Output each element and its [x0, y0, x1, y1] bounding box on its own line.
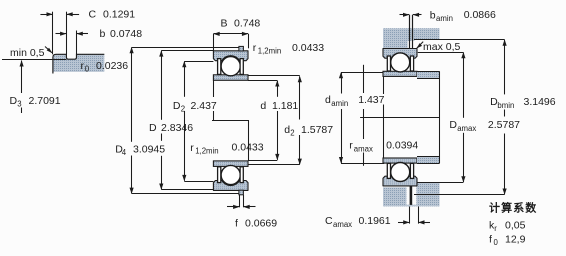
dimension B line with arrows — [213, 33, 248, 35]
svg-text:3.0945: 3.0945 — [133, 144, 165, 156]
svg-text:1.181: 1.181 — [272, 100, 298, 112]
svg-text:r: r — [253, 42, 257, 54]
housing upper block — [383, 28, 440, 48]
left detail: groove block outline with groove and chamfer — [53, 54, 104, 73]
shaft shoulder face line — [439, 71, 441, 163]
bearing inner ring — [213, 161, 248, 167]
svg-text:amax: amax — [354, 144, 373, 153]
dimension D2 line with arrows — [184, 61, 186, 96]
mounted bearing ball — [391, 163, 410, 182]
svg-text:b: b — [100, 28, 106, 40]
svg-text:B: B — [221, 18, 228, 30]
bearing snap ring — [239, 46, 244, 51]
svg-text:0.0394: 0.0394 — [386, 140, 418, 152]
mounted bearing inner ring — [383, 71, 417, 76]
dimension C_amax arrows — [398, 222, 410, 224]
svg-text:f: f — [235, 218, 238, 230]
svg-text:1.437: 1.437 — [358, 94, 384, 106]
dimension D4 line with arrows — [131, 47, 133, 141]
bearing ball — [221, 57, 240, 76]
right figure: upper bearing section — [383, 49, 417, 77]
svg-text:d: d — [325, 94, 331, 106]
housing lower block right with abutment shoulder — [416, 183, 439, 207]
svg-text:2.7091: 2.7091 — [29, 95, 61, 107]
svg-text:d: d — [260, 100, 266, 112]
right figure: left side face line — [383, 76, 385, 94]
svg-text:0.0236: 0.0236 — [96, 60, 128, 72]
dimension f arrows — [227, 206, 239, 208]
housing lower abutment shoulder top edge line — [416, 182, 439, 184]
svg-text:0.1961: 0.1961 — [359, 215, 391, 227]
dimension d line with arrows — [277, 81, 279, 97]
dimension D_bmin reference line lower — [414, 194, 505, 196]
svg-text:2.437: 2.437 — [191, 100, 217, 112]
snap ring in housing groove lower — [410, 184, 413, 205]
dimension b_amin extension lines — [409, 15, 411, 49]
bearing outer ring — [213, 181, 248, 191]
svg-text:0.0669: 0.0669 — [245, 218, 277, 230]
svg-text:amin: amin — [331, 99, 348, 108]
dimension C_amax extension lines — [409, 207, 411, 224]
mounted bearing inner ring — [383, 158, 417, 163]
dimension d_amin reference line upper — [341, 72, 383, 74]
dimension b_amin arrows — [400, 14, 410, 16]
dimension f extension lines — [239, 195, 241, 207]
dimension b arrows — [56, 33, 67, 35]
dimension d reference lines — [248, 80, 277, 82]
svg-text:0.1291: 0.1291 — [103, 9, 135, 21]
housing lower groove bottom strip — [406, 205, 416, 207]
svg-text:12,9: 12,9 — [505, 234, 526, 246]
svg-text:4: 4 — [122, 148, 127, 157]
snap ring in housing groove upper — [410, 41, 413, 49]
svg-text:0.0433: 0.0433 — [292, 42, 324, 54]
bearing seal left — [218, 59, 221, 75]
svg-text:D: D — [10, 95, 18, 107]
dimension D_amax reference line upper — [418, 52, 464, 54]
left detail: D3 dimension arrow — [21, 61, 23, 94]
shaft shoulder lower block — [417, 157, 440, 164]
left detail: outer ring snap-ring groove block — [53, 54, 105, 72]
svg-text:1,2min: 1,2min — [195, 147, 218, 156]
middle figure: right side face line — [248, 120, 250, 161]
svg-text:0: 0 — [85, 65, 90, 74]
mounted bearing seal right — [410, 56, 413, 71]
svg-text:1,2min: 1,2min — [258, 47, 281, 56]
dimension D4 reference lines — [132, 47, 239, 49]
svg-text:0,05: 0,05 — [505, 219, 526, 231]
r_amax fillet indicator line — [363, 65, 365, 93]
dimension d2 line with arrows — [299, 76, 301, 119]
svg-text:2.8346: 2.8346 — [161, 122, 193, 134]
svg-text:r: r — [494, 224, 497, 233]
bearing outer ring — [213, 51, 248, 61]
svg-text:C: C — [89, 9, 97, 21]
svg-text:D: D — [149, 122, 157, 134]
dimension D_amax reference line lower — [440, 182, 464, 184]
svg-text:r: r — [190, 142, 194, 154]
bearing seal left — [218, 167, 221, 183]
middle figure: upper bearing section — [213, 46, 248, 80]
svg-text:3: 3 — [17, 100, 21, 109]
dimension D_bmin line with arrows — [504, 40, 506, 95]
dimension D_amax line with arrows — [463, 52, 465, 117]
bearing snap ring — [239, 190, 244, 195]
right figure: axis line — [360, 117, 439, 119]
bearing seal right — [240, 59, 243, 75]
dimension b extension line — [76, 31, 78, 55]
dimension D2 reference lines — [184, 61, 213, 63]
svg-text:1.5787: 1.5787 — [301, 124, 333, 136]
mounted bearing seal right — [410, 163, 413, 178]
svg-text:0.748: 0.748 — [234, 18, 260, 30]
svg-text:min 0,5: min 0,5 — [10, 47, 45, 59]
svg-text:D: D — [449, 119, 457, 131]
svg-text:bmin: bmin — [497, 101, 514, 110]
svg-text:amax: amax — [457, 124, 476, 133]
mounted bearing outer ring — [383, 49, 417, 59]
dimension D line with arrows — [161, 51, 163, 120]
svg-text:b: b — [430, 9, 436, 21]
dimension B extension lines — [213, 34, 215, 52]
right figure: lower bearing section (mirrored) — [383, 158, 417, 186]
bearing ball — [221, 165, 240, 184]
svg-text:D: D — [173, 100, 181, 112]
svg-text:max 0,5: max 0,5 — [423, 41, 461, 53]
dimension C arrows — [40, 14, 52, 16]
svg-text:r: r — [349, 140, 353, 152]
svg-text:f: f — [489, 234, 492, 246]
svg-text:0.0866: 0.0866 — [464, 9, 496, 21]
mounted bearing seal left — [387, 163, 390, 178]
svg-text:0: 0 — [494, 238, 499, 247]
middle figure: axis line — [212, 120, 249, 122]
svg-text:amin: amin — [436, 14, 453, 23]
svg-text:2: 2 — [290, 128, 294, 137]
mounted bearing seal left — [387, 56, 390, 71]
svg-text:0.0748: 0.0748 — [110, 28, 142, 40]
dimension d_amin reference line lower — [341, 163, 384, 165]
svg-text:0.0433: 0.0433 — [232, 142, 264, 154]
mounted bearing outer ring — [383, 176, 417, 186]
dimension D_bmin reference line upper — [414, 39, 505, 41]
bearing seal right — [240, 167, 243, 183]
dimension D reference lines — [161, 50, 213, 52]
shaft shoulder upper block — [417, 71, 440, 78]
svg-text:2: 2 — [181, 105, 185, 114]
dimension d2 reference lines — [248, 75, 300, 77]
svg-text:amax: amax — [333, 220, 352, 229]
svg-text:计算系数: 计算系数 — [489, 201, 537, 215]
svg-text:3.1496: 3.1496 — [524, 96, 556, 108]
svg-text:C: C — [325, 215, 333, 227]
dimension d_amin line with arrows — [341, 72, 343, 93]
middle figure: left side face line — [213, 80, 215, 97]
left detail: D3 diameter reference line — [2, 59, 66, 61]
dimension C extension lines — [52, 12, 54, 55]
middle figure: lower bearing section (mirrored) — [213, 161, 248, 195]
mounted bearing ball — [391, 53, 410, 72]
housing lower block left — [383, 187, 406, 206]
bearing inner ring — [213, 75, 248, 81]
svg-text:2.5787: 2.5787 — [488, 119, 520, 131]
